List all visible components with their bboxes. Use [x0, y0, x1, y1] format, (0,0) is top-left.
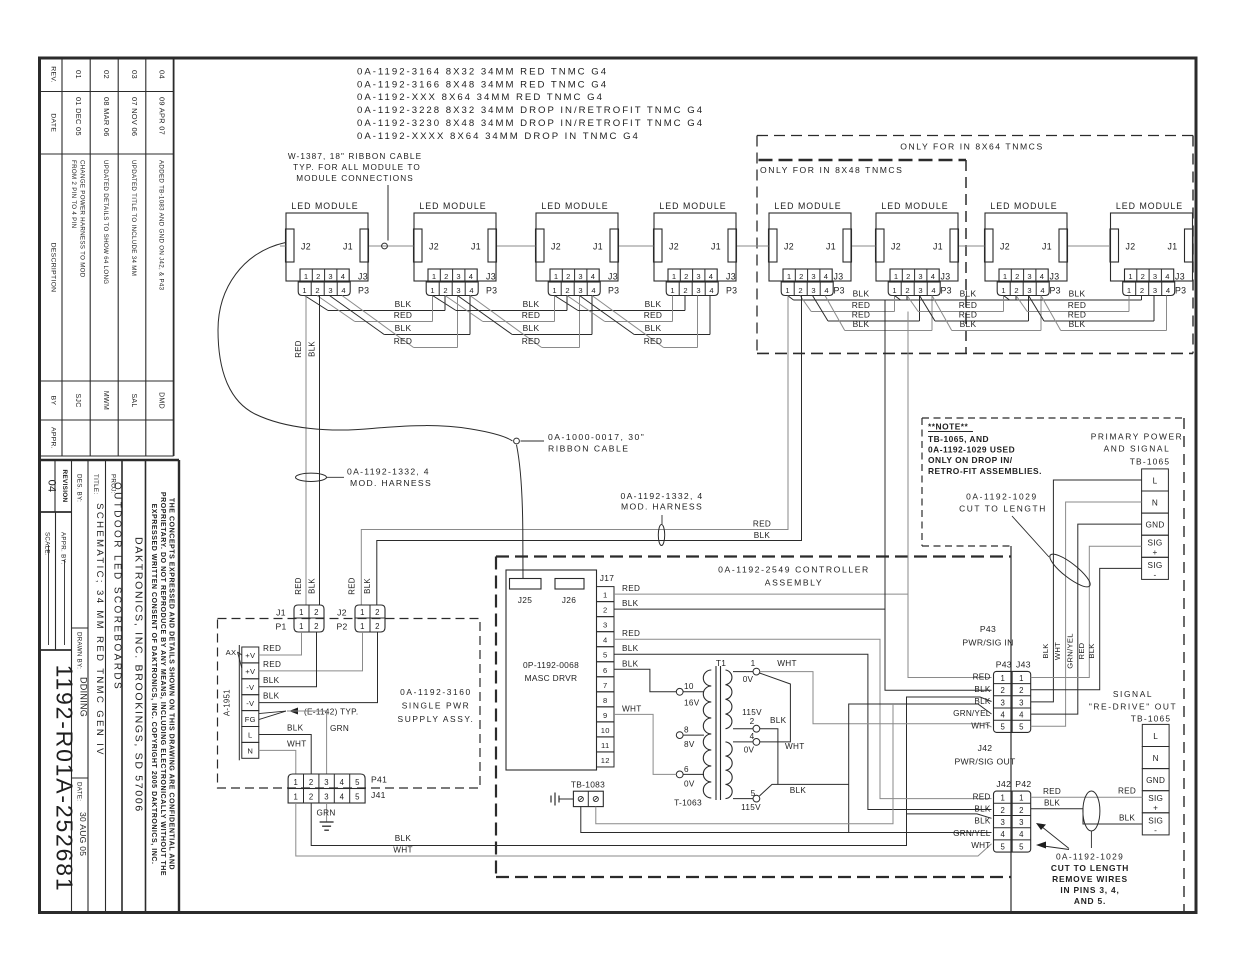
svg-text:RED: RED [852, 300, 871, 310]
svg-text:LED MODULE: LED MODULE [419, 201, 486, 211]
svg-text:WHT: WHT [971, 841, 990, 850]
svg-text:RETRO-FIT ASSEMBLIES.: RETRO-FIT ASSEMBLIES. [928, 466, 1042, 476]
module 7 connector J1 [1059, 229, 1068, 262]
svg-text:2: 2 [684, 272, 689, 281]
dashed box controller assembly 0A-1192-2549 [496, 557, 1011, 878]
module 8 connector J2 [1110, 229, 1119, 262]
svg-text:ADDED TB-1083 AND GND ON J42,: ADDED TB-1083 AND GND ON J42, & P43 [158, 160, 165, 291]
svg-text:1: 1 [892, 286, 897, 295]
svg-text:5: 5 [1000, 723, 1005, 732]
title block [40, 460, 180, 911]
svg-text:BY: BY [50, 396, 57, 406]
connector J2/P2 [336, 605, 385, 632]
svg-text:3: 3 [578, 272, 583, 281]
W-1387 ribbon cable note [288, 152, 422, 241]
module 4 connector J2 [654, 229, 663, 262]
svg-text:1: 1 [430, 286, 435, 295]
svg-text:WHT: WHT [393, 846, 413, 855]
LED module 1 [286, 201, 370, 296]
LED module 6 [876, 201, 959, 296]
svg-text:3: 3 [1027, 272, 1032, 281]
svg-text:P3: P3 [726, 285, 737, 295]
svg-text:BLK: BLK [1044, 799, 1060, 808]
label 0A-1192-1029 cut to length remove wires [1051, 852, 1129, 907]
svg-text:J41: J41 [371, 790, 386, 800]
svg-text:J42: J42 [978, 743, 993, 753]
svg-text:3: 3 [1019, 818, 1024, 827]
svg-text:0A-1192-1029: 0A-1192-1029 [1056, 852, 1124, 862]
svg-text:1: 1 [751, 659, 756, 668]
svg-text:1: 1 [432, 272, 437, 281]
svg-text:0P-1192-0068: 0P-1192-0068 [523, 660, 579, 670]
wire module ribbon chain J1-J2 [280, 245, 1110, 247]
wire RED J17-4 to J42-1 [614, 639, 992, 798]
module 8 connector J3 pins 1-4 [1125, 269, 1174, 282]
svg-text:2: 2 [1000, 806, 1005, 815]
svg-text:0A-1192-3166 8X48 34MM RED: 0A-1192-3166 8X48 34MM RED TNMC G4 [357, 79, 608, 90]
parts list [357, 67, 704, 142]
LED module 8 [1110, 201, 1193, 296]
svg-text:J42: J42 [996, 779, 1011, 789]
svg-text:J1: J1 [471, 242, 481, 252]
svg-text:0A-1192-3160: 0A-1192-3160 [400, 687, 472, 697]
svg-text:4: 4 [591, 286, 596, 295]
LED module 3 [536, 201, 620, 296]
svg-text:ONLY FOR IN 8X64 TNMCS: ONLY FOR IN 8X64 TNMCS [900, 142, 1043, 152]
svg-text:-: - [1154, 826, 1157, 835]
svg-text:5: 5 [1000, 842, 1005, 851]
svg-text:5: 5 [1019, 842, 1024, 851]
svg-text:DAKTRONICS, INC. BROOKINGS,: DAKTRONICS, INC. BROOKINGS, SD 57006 [133, 537, 145, 813]
svg-text:2: 2 [565, 286, 570, 295]
svg-text:GRN/YEL: GRN/YEL [953, 829, 991, 838]
svg-text:-V: -V [246, 683, 255, 692]
svg-text:16V: 16V [684, 699, 700, 708]
svg-text:P3: P3 [834, 285, 845, 295]
svg-text:30 AUG 05: 30 AUG 05 [78, 812, 88, 856]
wire BLK module chain to P43-2 [885, 300, 992, 690]
svg-text:N: N [1153, 754, 1159, 763]
svg-text:P1: P1 [275, 622, 286, 632]
svg-text:0A-1192-2549 CONTROLLER: 0A-1192-2549 CONTROLLER [718, 565, 870, 575]
primary tap 6 0V [676, 771, 683, 778]
svg-text:5: 5 [603, 651, 608, 660]
svg-text:P43: P43 [980, 624, 996, 634]
svg-text:WHT: WHT [785, 742, 805, 751]
LED module 2 [414, 201, 498, 296]
svg-text:2: 2 [314, 608, 319, 617]
svg-text:J1: J1 [826, 242, 836, 252]
svg-text:TB-1065: TB-1065 [1130, 457, 1171, 467]
svg-text:RED: RED [1068, 300, 1087, 310]
svg-text:"RE-DRIVE" OUT: "RE-DRIVE" OUT [1089, 702, 1177, 712]
wire BLK A-1951 -V to P2-2 [259, 632, 378, 703]
svg-text:10: 10 [684, 682, 694, 691]
svg-text:L: L [248, 731, 253, 740]
module 8 connector P3 pins 1-4 [1123, 282, 1175, 296]
svg-text:RED: RED [394, 310, 413, 320]
secondary tap 4 0V [733, 741, 753, 743]
svg-text:CUT TO LENGTH: CUT TO LENGTH [959, 504, 1047, 514]
module 5 connector J2 [769, 229, 778, 262]
wires module chain gap 3 [555, 296, 711, 348]
dashed box power supply assembly 0A-1192-3160 [218, 619, 481, 789]
svg-text:SJC: SJC [74, 393, 81, 407]
svg-text:3: 3 [811, 286, 816, 295]
svg-text:P3: P3 [358, 285, 369, 295]
svg-text:4: 4 [469, 272, 474, 281]
module 6 connector P3 pins 1-4 [888, 282, 940, 296]
svg-text:PROPRIETARY. DO NOT REPRODUCE: PROPRIETARY. DO NOT REPRODUCE BY ANY MEA… [159, 492, 166, 876]
module 7 connector P3 pins 1-4 [997, 282, 1049, 296]
svg-text:0A-1192-3230 8X48 34MM DRO: 0A-1192-3230 8X48 34MM DROP IN/RETROFIT … [357, 118, 704, 129]
svg-text:RED: RED [394, 336, 413, 346]
svg-text:0A-1192-1029: 0A-1192-1029 [966, 492, 1038, 502]
svg-text:UPDATED TITLE TO INCLUDE 34 MM: UPDATED TITLE TO INCLUDE 34 MM [130, 160, 137, 276]
svg-text:REV.: REV. [50, 66, 57, 82]
svg-text:+V: +V [245, 651, 256, 660]
primary tap 10 16V [676, 688, 683, 695]
svg-text:3: 3 [1000, 698, 1005, 707]
svg-text:RED: RED [973, 792, 991, 801]
svg-text:APPR.: APPR. [50, 427, 57, 449]
module 2 connector J3 pins 1-4 [428, 269, 477, 282]
svg-text:SAL: SAL [130, 393, 137, 407]
svg-text:GRN: GRN [316, 809, 335, 818]
ground symbol TB-1083 [551, 793, 573, 806]
svg-text:RED: RED [959, 300, 978, 310]
svg-text:J3: J3 [1175, 272, 1185, 282]
svg-text:MOD. HARNESS: MOD. HARNESS [350, 478, 432, 488]
svg-text:BLK: BLK [960, 319, 977, 329]
svg-text:PRIMARY POWER: PRIMARY POWER [1091, 432, 1184, 442]
svg-text:TYP. FOR ALL MODULE TO: TYP. FOR ALL MODULE TO [293, 163, 421, 172]
connector J25 [510, 579, 542, 590]
svg-text:RED: RED [644, 310, 663, 320]
module 1 connector J3 pins 1-4 [300, 269, 349, 282]
svg-text:0A-1192-1332, 4: 0A-1192-1332, 4 [347, 467, 430, 477]
module 2 connector J1 [488, 229, 497, 262]
svg-text:IN PINS 3, 4,: IN PINS 3, 4, [1060, 885, 1119, 895]
svg-text:WHT: WHT [287, 739, 307, 748]
svg-text:RED: RED [973, 673, 991, 682]
svg-text:0A-1192-3228 8X32 34MM DRO: 0A-1192-3228 8X32 34MM DROP IN/RETROFIT … [357, 105, 704, 116]
svg-text:7: 7 [603, 681, 608, 690]
wire RED A-1951 +V to P1-1 [259, 632, 302, 655]
svg-text:4: 4 [750, 732, 755, 741]
svg-text:GRN/YEL: GRN/YEL [1065, 633, 1074, 668]
svg-text:3: 3 [324, 778, 329, 787]
svg-text:J1: J1 [1168, 242, 1178, 252]
svg-text:RED: RED [852, 310, 871, 320]
svg-text:CUT TO LENGTH: CUT TO LENGTH [1051, 863, 1129, 873]
svg-text:LED MODULE: LED MODULE [881, 201, 948, 211]
svg-text:L: L [1153, 476, 1158, 485]
svg-text:TB-1065, AND: TB-1065, AND [928, 434, 989, 444]
wire BLK J17-6 to transformer tap 10 [614, 669, 676, 692]
svg-text:1: 1 [299, 608, 304, 617]
svg-text:RED: RED [1118, 787, 1136, 796]
svg-text:J3: J3 [834, 272, 844, 282]
svg-text:L: L [1153, 732, 1158, 741]
svg-text:REMOVE WIRES: REMOVE WIRES [1052, 874, 1128, 884]
svg-text:GND: GND [1146, 776, 1165, 785]
wire RED A-1951 +V to P2-1 [259, 632, 363, 671]
svg-text:4: 4 [1165, 272, 1170, 281]
svg-text:RED: RED [622, 629, 640, 638]
svg-text:ONLY ON DROP IN/: ONLY ON DROP IN/ [928, 455, 1013, 465]
svg-text:4: 4 [709, 286, 714, 295]
svg-text:W-1387, 18" RIBBON CABLE: W-1387, 18" RIBBON CABLE [288, 152, 422, 161]
svg-text:03: 03 [130, 70, 139, 79]
svg-text:J2: J2 [1000, 242, 1010, 252]
module 1 connector J1 [360, 229, 369, 262]
terminal block TB-1065 [1142, 724, 1169, 834]
svg-text:RED: RED [294, 340, 303, 357]
wire BLK A-1951 L to P41-2 [259, 734, 311, 774]
svg-text:MASC DRVR: MASC DRVR [525, 673, 578, 683]
svg-text:2: 2 [566, 272, 571, 281]
svg-text:DMD: DMD [158, 392, 165, 409]
svg-text:07 NOV 06: 07 NOV 06 [130, 97, 139, 136]
svg-text:1: 1 [1019, 674, 1024, 683]
svg-text:1: 1 [1019, 794, 1024, 803]
svg-text:A-1951: A-1951 [223, 689, 232, 716]
svg-text:BLK: BLK [523, 299, 540, 309]
svg-text:P3: P3 [608, 285, 619, 295]
svg-text:FG: FG [245, 715, 256, 724]
svg-text:1: 1 [302, 286, 307, 295]
svg-text:1: 1 [787, 272, 792, 281]
svg-text:DDINING: DDINING [79, 677, 89, 717]
module 3 connector J3 pins 1-4 [550, 269, 599, 282]
svg-text:N: N [1152, 499, 1158, 508]
svg-text:4: 4 [1019, 830, 1024, 839]
LED module 4 [654, 201, 738, 296]
svg-text:J2: J2 [551, 242, 561, 252]
svg-text:3: 3 [1153, 272, 1158, 281]
wire BLK A-1951 -V to P1-2 [259, 632, 317, 687]
svg-text:2: 2 [443, 286, 448, 295]
svg-text:2: 2 [799, 272, 804, 281]
svg-text:P41: P41 [371, 775, 387, 785]
svg-text:2: 2 [375, 622, 380, 631]
svg-text:LED MODULE: LED MODULE [990, 201, 1057, 211]
svg-text:BLK: BLK [622, 659, 639, 668]
svg-text:3: 3 [918, 286, 923, 295]
svg-text:3: 3 [578, 286, 583, 295]
svg-text:J2: J2 [429, 242, 439, 252]
svg-text:BLK: BLK [523, 323, 540, 333]
svg-text:5: 5 [355, 793, 360, 802]
svg-text:02: 02 [102, 70, 111, 79]
svg-text:BLK: BLK [853, 289, 870, 299]
module 2 connector P3 pins 1-4 [426, 282, 478, 296]
svg-text:-V: -V [246, 699, 255, 708]
svg-text:P2: P2 [336, 622, 347, 632]
svg-text:EXPRESSED WRITTEN CONSENT OF D: EXPRESSED WRITTEN CONSENT OF DAKTRONICS,… [150, 504, 157, 865]
svg-text:RED: RED [1068, 310, 1087, 320]
wires module chain gap 1 [305, 296, 471, 348]
svg-text:LED MODULE: LED MODULE [541, 201, 608, 211]
svg-text:4: 4 [1000, 711, 1005, 720]
svg-text:WHT: WHT [777, 659, 797, 668]
svg-text:**NOTE**: **NOTE** [928, 422, 969, 432]
svg-text:2: 2 [1000, 686, 1005, 695]
svg-text:12: 12 [601, 756, 610, 765]
svg-text:2: 2 [316, 272, 321, 281]
svg-text:RED: RED [522, 310, 541, 320]
svg-text:J1: J1 [711, 242, 721, 252]
svg-text:4: 4 [603, 636, 608, 645]
svg-text:MWM: MWM [102, 391, 109, 410]
svg-text:2: 2 [444, 272, 449, 281]
svg-text:1: 1 [293, 793, 298, 802]
svg-text:2: 2 [375, 608, 380, 617]
svg-text:MODULE CONNECTIONS: MODULE CONNECTIONS [296, 174, 414, 183]
svg-text:BLK: BLK [974, 817, 990, 826]
svg-text:J1: J1 [593, 242, 603, 252]
svg-text:115V: 115V [742, 708, 762, 717]
svg-text:5: 5 [355, 778, 360, 787]
svg-text:P3: P3 [486, 285, 497, 295]
branch BLK to J42-3 [907, 814, 992, 818]
svg-text:SIGNAL: SIGNAL [1113, 689, 1153, 699]
svg-text:BLK: BLK [1119, 814, 1135, 823]
svg-text:DES. BY:: DES. BY: [76, 474, 83, 502]
module 3 connector J2 [536, 229, 545, 262]
svg-text:J17: J17 [600, 573, 614, 583]
svg-text:1: 1 [1000, 674, 1005, 683]
svg-text:4: 4 [1019, 711, 1024, 720]
svg-text:SCALE:: SCALE: [44, 532, 51, 556]
svg-text:BLK: BLK [308, 578, 317, 594]
svg-text:1: 1 [785, 286, 790, 295]
svg-text:MOD. HARNESS: MOD. HARNESS [621, 501, 703, 511]
svg-text:BLK: BLK [974, 697, 990, 706]
svg-text:RED: RED [263, 660, 281, 669]
svg-text:2: 2 [314, 622, 319, 631]
svg-text:BLK: BLK [1087, 643, 1096, 658]
svg-text:4: 4 [709, 272, 714, 281]
svg-text:2: 2 [798, 286, 803, 295]
transformer T1 T-1063 [674, 658, 732, 808]
jumper tap2 to tap5 junction [760, 729, 778, 785]
svg-text:1: 1 [1000, 794, 1005, 803]
wire GRN/YEL TB-1065 GND to J43-4 [1031, 524, 1142, 714]
wire BLK module5 P3-2 to P2-2 [377, 296, 802, 606]
svg-text:BLK: BLK [974, 805, 990, 814]
primary tap 8 8V [676, 732, 683, 739]
svg-text:SUPPLY ASSY.: SUPPLY ASSY. [398, 714, 475, 724]
svg-text:+: + [1153, 804, 1158, 813]
svg-text:SIG: SIG [1148, 816, 1163, 825]
wire BLK J17-2 to P43-2 [614, 608, 885, 610]
secondary tap 5 115V [733, 798, 753, 800]
module 5 connector J3 pins 1-4 [783, 269, 832, 282]
arrows to pins 4 and 5 [1036, 823, 1069, 850]
svg-text:2: 2 [309, 778, 314, 787]
svg-text:WHT: WHT [971, 721, 990, 730]
svg-text:2: 2 [906, 272, 911, 281]
svg-text:AX: AX [226, 648, 237, 657]
svg-text:T-1063: T-1063 [674, 798, 702, 808]
svg-text:2: 2 [1140, 286, 1145, 295]
svg-text:RED: RED [522, 336, 541, 346]
svg-text:LED MODULE: LED MODULE [659, 201, 726, 211]
svg-text:BLK: BLK [960, 289, 977, 299]
svg-text:GRN/YEL: GRN/YEL [953, 709, 991, 718]
svg-text:0V: 0V [743, 675, 754, 684]
dashed note box [922, 418, 1184, 546]
svg-text:3: 3 [324, 793, 329, 802]
svg-text:04: 04 [158, 70, 167, 79]
svg-text:GND: GND [1145, 521, 1164, 530]
svg-text:3: 3 [1019, 698, 1024, 707]
svg-text:1: 1 [554, 272, 559, 281]
svg-text:RED: RED [348, 577, 357, 594]
wire GRN J41-3 to ground [326, 803, 328, 822]
wire GRN/YEL TB-1083-2 to J43-4 [596, 704, 893, 824]
svg-text:SINGLE PWR: SINGLE PWR [402, 701, 471, 711]
svg-text:1: 1 [360, 608, 365, 617]
svg-text:+V: +V [245, 667, 256, 676]
svg-text:BLK: BLK [770, 716, 787, 725]
wire BLK TB-1065 L to J43-3 [1031, 480, 1142, 702]
svg-text:04: 04 [46, 480, 58, 493]
svg-text:4: 4 [1040, 272, 1045, 281]
svg-text:J2: J2 [1126, 242, 1136, 252]
svg-text:09 APR 07: 09 APR 07 [158, 97, 167, 135]
svg-text:3: 3 [1000, 818, 1005, 827]
terminal block TB-1083 [571, 780, 605, 807]
svg-text:2: 2 [750, 717, 755, 726]
svg-text:2: 2 [1014, 286, 1019, 295]
svg-text:BLK: BLK [363, 578, 372, 594]
ground symbol below J41 [320, 821, 334, 823]
svg-text:4: 4 [824, 286, 829, 295]
svg-text:TB-1065: TB-1065 [1131, 714, 1172, 724]
svg-text:3: 3 [811, 272, 816, 281]
svg-text:0A-1000-0017, 30": 0A-1000-0017, 30" [548, 432, 645, 442]
svg-text:1: 1 [552, 286, 557, 295]
svg-text:BLK: BLK [395, 323, 412, 333]
FG lug E-1142 with arrow [259, 711, 286, 714]
svg-text:RED: RED [753, 520, 771, 529]
dashed box ONLY FOR IN 8X64 TNMCS [757, 136, 1193, 354]
svg-text:FROM 2 PIN TO 4 PIN: FROM 2 PIN TO 4 PIN [70, 160, 77, 228]
cable ellipse marker 0A-1192-1029 [1046, 550, 1094, 592]
svg-text:0A-1192-XXX 8X64 34MM RED: 0A-1192-XXX 8X64 34MM RED TNMC G4 [357, 92, 604, 103]
svg-text:APPR. BY:: APPR. BY: [60, 532, 67, 565]
svg-text:4: 4 [1166, 286, 1171, 295]
svg-text:BLK: BLK [308, 341, 317, 357]
svg-text:2: 2 [1019, 806, 1024, 815]
svg-text:3: 3 [328, 272, 333, 281]
svg-text:RED: RED [959, 310, 978, 320]
module 8 connector J1 [1185, 229, 1194, 262]
svg-text:BLK: BLK [263, 676, 280, 685]
svg-text:J3: J3 [726, 272, 736, 282]
svg-text:P43: P43 [996, 660, 1012, 670]
svg-text:10: 10 [601, 726, 610, 735]
svg-text:11: 11 [601, 741, 609, 750]
MASC driver board 0P-1192-0068 [506, 570, 597, 770]
wire GRN/YEL TB-1083-1 to J42-4 [581, 807, 992, 833]
svg-text:2: 2 [905, 286, 910, 295]
wire RED TB-1065 SIG+ to J43-1 [1031, 546, 1142, 677]
ribbon cable curve from module1 J2 to controller J25 [218, 243, 513, 442]
